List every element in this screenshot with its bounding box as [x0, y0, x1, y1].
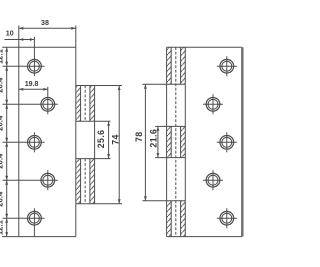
svg-text:20.4: 20.4	[0, 191, 4, 207]
left plate top edge with left tick extension	[2, 46, 76, 48]
dimension 78 line	[144, 84, 147, 201]
svg-text:38: 38	[41, 19, 49, 27]
left plate bottom edge with left tick extension	[2, 236, 76, 238]
right barrel left outer edge	[166, 47, 168, 236]
dimension 19.8 line	[19, 88, 48, 91]
dimension 38 line	[19, 27, 76, 30]
barrel hatched walls (left view)	[76, 86, 81, 122]
knuckle gap top edge + 25.6 tick	[76, 120, 111, 122]
hole R2	[203, 94, 223, 114]
svg-text:78: 78	[134, 131, 144, 142]
barrel inner wall line right	[89, 86, 91, 204]
right barrel inner wall lines	[170, 47, 172, 236]
middle knuckle bottom edge + 21.6 tick	[155, 157, 185, 159]
right plate top edge	[167, 46, 242, 48]
hole L2	[3, 87, 58, 115]
barrel top edge + 74 tick	[76, 85, 122, 87]
barrel dashed centerline (left view)	[84, 86, 86, 204]
svg-text:12.1: 12.1	[0, 48, 4, 64]
knuckle section top edge + 78 tick	[142, 83, 185, 85]
middle knuckle top edge + 21.6 tick	[155, 125, 185, 127]
svg-text:20.4: 20.4	[0, 77, 4, 93]
right barrel hatched walls	[167, 47, 172, 84]
hole L5	[3, 208, 45, 236]
hole R4	[203, 170, 223, 190]
left plate right edge / barrel left wall outer	[75, 26, 77, 237]
hole L1	[3, 37, 45, 76]
hole R1	[217, 56, 237, 76]
hole R3	[217, 132, 237, 152]
right plate bottom edge	[167, 236, 242, 238]
right barrel right outer edge	[184, 47, 186, 236]
svg-text:74: 74	[111, 134, 121, 145]
left chain dimension line	[5, 47, 8, 236]
svg-text:25.6: 25.6	[96, 130, 106, 149]
svg-text:20.4: 20.4	[0, 115, 4, 131]
right plate right edge (thick)	[241, 47, 243, 236]
dimension 74 line	[118, 86, 121, 204]
barrel right outer edge	[94, 86, 96, 204]
knuckle section bottom edge + 78 tick	[142, 200, 185, 202]
svg-text:10: 10	[6, 30, 14, 38]
hole R5	[217, 208, 237, 228]
svg-text:21.6: 21.6	[149, 129, 159, 148]
barrel bottom edge + 74 tick	[76, 203, 122, 205]
right barrel dashed centerline	[175, 47, 177, 236]
hole L4	[3, 170, 58, 190]
svg-text:20.4: 20.4	[0, 153, 4, 169]
barrel inner wall line left	[80, 86, 82, 204]
left plate left edge	[18, 26, 20, 237]
dimension 10 line	[4, 38, 34, 41]
svg-text:19.8: 19.8	[25, 80, 39, 88]
hole L3	[3, 132, 45, 152]
dimension 21.6 line	[157, 126, 160, 157]
svg-text:12.1: 12.1	[0, 219, 4, 235]
dimension 25.6 line	[107, 121, 110, 158]
knuckle gap bottom edge + 25.6 tick	[76, 158, 111, 160]
